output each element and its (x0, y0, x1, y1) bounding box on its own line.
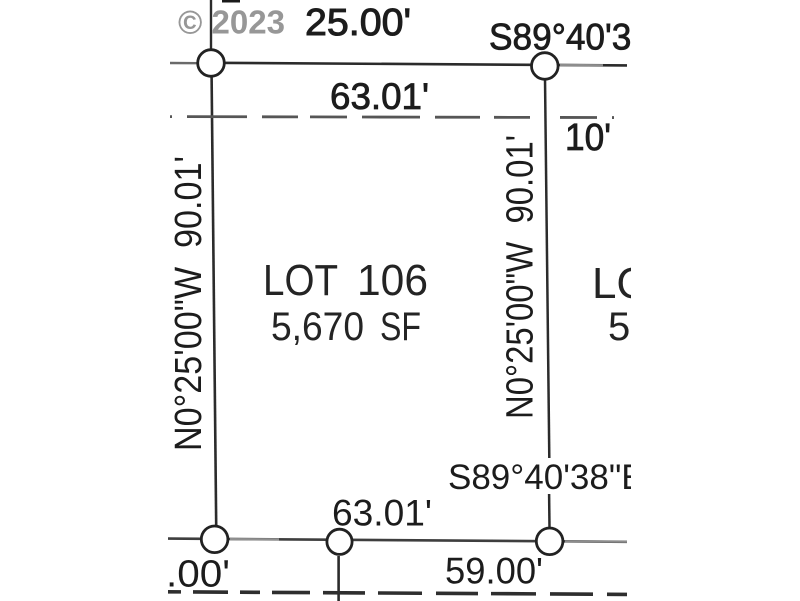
wire: south line below middle monument (337, 556, 340, 601)
svg-text:© 2023: © 2023 (178, 4, 285, 41)
top edge bar remnant (222, 0, 240, 3)
wire: bottom boundary line (168, 539, 627, 542)
svg-text:63.01': 63.01' (332, 493, 432, 534)
monument circle SW (201, 526, 228, 553)
svg-text:S89°40'38"E: S89°40'38"E (448, 458, 645, 497)
svg-text:63.01': 63.01' (330, 76, 429, 117)
monument circle NW (198, 50, 225, 77)
svg-text:.00': .00' (166, 554, 230, 596)
monument circle NE (532, 53, 559, 80)
wire: west lot boundary (212, 76, 217, 526)
wire: setback dashed line lower (168, 592, 627, 595)
wire: east lot boundary upper (545, 78, 549, 458)
monument circle S-middle (327, 529, 352, 554)
wire: bottom boundary gray segment left (230, 538, 279, 541)
svg-text:5,670SF: 5,670SF (271, 305, 421, 349)
monument circle SE (536, 528, 563, 555)
wire: setback dashed line upper (170, 117, 627, 118)
wire: top boundary gray segment right of monument (560, 64, 603, 66)
svg-text:N0°25'00"W 90.01': N0°25'00"W 90.01' (168, 156, 210, 451)
wire: bottom boundary gray segment right (565, 540, 627, 542)
svg-text:59.00': 59.00' (445, 551, 543, 592)
svg-text:N0°25'00"W 90.01': N0°25'00"W 90.01' (500, 135, 542, 419)
wire: tick above NW monument (210, 0, 212, 51)
wire: top boundary left stub (170, 62, 199, 65)
wire: east lot boundary lower stub (548, 494, 551, 528)
wire: top boundary line (211, 63, 627, 66)
svg-text:10': 10' (565, 117, 611, 159)
svg-text:25.00': 25.00' (305, 2, 411, 44)
